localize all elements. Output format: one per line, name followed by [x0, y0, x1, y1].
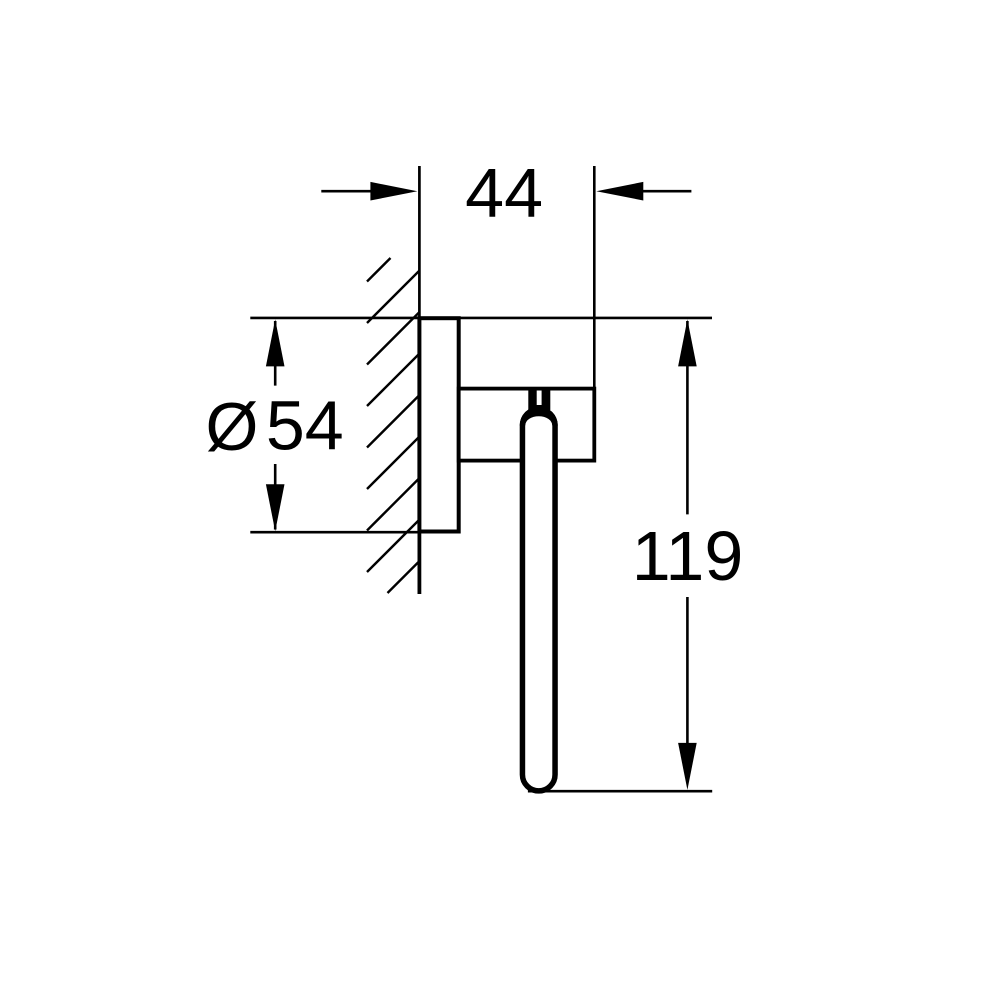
dimension 44 left arrow line	[321, 190, 378, 193]
hatch line 1 (clipped top)	[367, 258, 391, 282]
svg-text:54: 54	[266, 387, 344, 465]
dimension O54 down arrowhead	[266, 484, 285, 531]
hinge slot (white)	[537, 391, 542, 406]
hatch line 2	[367, 271, 420, 324]
paper holder ring (stadium outline)	[522, 409, 555, 791]
extension line bottom of ring (119)	[528, 790, 712, 793]
holder body (side view)	[459, 389, 595, 461]
hatch line 4	[367, 354, 420, 407]
hatch line 6	[367, 437, 420, 490]
svg-text:Ø: Ø	[206, 389, 259, 465]
dimension 119 line lower segment	[686, 597, 689, 755]
dimension O54 line lower segment	[274, 464, 277, 530]
wall line lower thick segment	[417, 532, 421, 595]
hatch line 8	[367, 520, 420, 573]
hatch line 9 (clipped bottom)	[388, 561, 420, 593]
dimension 119 up arrowhead	[678, 319, 697, 366]
hatch line 7	[367, 478, 420, 531]
extension line bottom of plate (O54)	[250, 531, 419, 534]
svg-text:119: 119	[632, 517, 744, 595]
hinge block	[528, 388, 550, 411]
dimension 119 down arrowhead	[678, 743, 697, 790]
wall hatching (9 lines at 45 deg)	[367, 258, 420, 593]
dimension O54 up arrowhead	[266, 319, 285, 366]
dimension 119 line upper segment	[686, 321, 689, 514]
extension line top (plate top / datum)	[250, 317, 712, 320]
ring top cap thickening	[520, 406, 558, 425]
extension line right of body (44 dim)	[593, 166, 596, 390]
wall line	[418, 166, 421, 594]
escutcheon plate (side view)	[419, 318, 458, 531]
dimension O54 line upper segment	[274, 321, 277, 386]
dimension 44 right arrow line	[638, 190, 691, 193]
dimension 44 right arrowhead	[596, 182, 643, 201]
svg-text:44: 44	[465, 154, 543, 232]
dimension 44 left arrowhead	[370, 182, 417, 201]
hatch line 3	[367, 312, 420, 365]
hatch line 5	[367, 395, 420, 448]
